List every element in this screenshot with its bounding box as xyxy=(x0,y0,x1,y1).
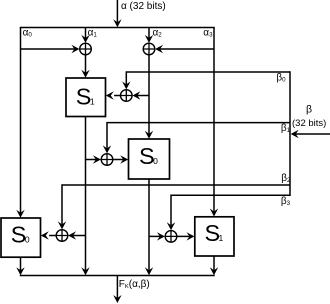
svg-text:β: β xyxy=(306,103,312,115)
wire: a2 drop into XOR X2 xyxy=(145,28,153,43)
XOR gate X4 (fK1 xor b1) xyxy=(101,154,113,166)
svg-text:0: 0 xyxy=(25,235,30,245)
S-box S1 (top) xyxy=(66,78,106,117)
wire: b0 line into XOR X3 xyxy=(122,72,290,89)
wire: X1 output into S-box S1 top xyxy=(81,55,89,78)
S-box S0 (bottom-left) xyxy=(1,218,41,257)
svg-text:α1: α1 xyxy=(88,28,98,39)
wire: beta input arrow xyxy=(291,130,330,138)
svg-text:(32 bits): (32 bits) xyxy=(292,118,326,129)
wire: top alpha distribution bus xyxy=(20,27,215,29)
wire: a3 line down into S-box S1 bottom-right xyxy=(210,28,218,217)
svg-text:0: 0 xyxy=(153,156,158,166)
svg-text:α2: α2 xyxy=(153,27,163,38)
wire: X5 output into S-box S0 bottom-left (right side) xyxy=(41,231,56,239)
svg-text:1: 1 xyxy=(219,233,224,243)
svg-text:β3: β3 xyxy=(281,196,291,207)
XOR gate X6 (fK2p xor b3) xyxy=(165,231,177,243)
wire: X6 output into S-box S1 bottom-right (left side) xyxy=(177,232,195,240)
wire: S0 middle output down to output bus xyxy=(145,179,153,275)
wire: branch from S0 middle output into XOR X6 xyxy=(149,232,165,240)
XOR gate X1 (a0 xor a1) xyxy=(80,43,92,55)
wire: X2 output down into S-box S0 middle xyxy=(145,55,153,139)
svg-text:FK(α,β): FK(α,β) xyxy=(119,279,150,290)
S-box S0 (middle) xyxy=(129,139,170,179)
wire: branch from S1 output into XOR X5 xyxy=(68,231,85,239)
wire: alpha input arrow xyxy=(113,0,121,27)
svg-text:β1: β1 xyxy=(281,123,291,134)
svg-text:β0: β0 xyxy=(276,73,286,84)
svg-text:α (32 bits): α (32 bits) xyxy=(121,1,166,12)
svg-text:α0: α0 xyxy=(23,28,33,39)
wire: b3 line into XOR X6 xyxy=(167,195,290,230)
S-box S1 (bottom-right) xyxy=(195,217,234,256)
wire: output bus xyxy=(20,275,215,277)
wire: branch from S1 output into XOR X4 xyxy=(86,155,101,163)
wire: a0 branch into XOR X1 xyxy=(21,45,80,53)
wire: S1 bottom-right output down to output bus xyxy=(210,256,218,275)
wire: S0 bottom-left output down to output bus xyxy=(16,257,24,275)
svg-text:α3: α3 xyxy=(203,27,213,38)
XOR gate X3 (fK2 xor b0) xyxy=(121,90,133,102)
wire: a0 line down into S-box S0 bottom-left xyxy=(16,28,24,218)
wire: X3 output into S-box S1 top (right side) xyxy=(106,91,121,99)
svg-text:1: 1 xyxy=(90,96,95,106)
wire: X4 output into S-box S0 middle (left side) xyxy=(113,155,128,163)
wire: fK output arrow xyxy=(113,276,121,304)
wire: b2 line into XOR X5 xyxy=(58,185,290,229)
wire: beta distribution vertical xyxy=(289,71,291,196)
XOR gate X5 (fK1p xor b2) xyxy=(56,230,68,242)
wire: branch from X2 line into XOR X3 xyxy=(132,91,149,99)
wire: b1 line into XOR X4 xyxy=(103,123,290,154)
wire: a1 drop into XOR X1 xyxy=(81,28,89,43)
wire: a3 branch into XOR X2 xyxy=(155,45,214,53)
wire: S1 top output down to output bus xyxy=(81,117,89,276)
XOR gate X2 (a2 xor a3) xyxy=(143,43,155,55)
